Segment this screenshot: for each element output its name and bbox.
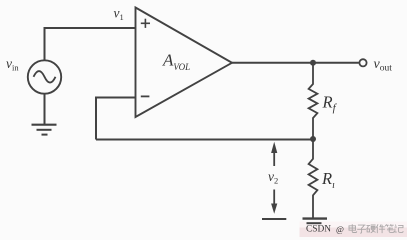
wire top: source to non-inverting input [45, 28, 136, 61]
v2 reference bar [262, 218, 286, 220]
op-amp + pin [141, 19, 150, 28]
watermark glyph 记 [395, 225, 404, 233]
op-amp - pin [141, 95, 150, 97]
watermark background [300, 227, 407, 237]
wire: output [232, 62, 359, 64]
wire: inverting input [96, 98, 136, 140]
resistor Ri [309, 139, 318, 218]
watermark glyph 笔 [385, 224, 394, 232]
node: output junction [310, 60, 316, 66]
node: feedback junction [310, 136, 316, 142]
watermark glyph 子 [357, 225, 366, 233]
wire: source bottom to ground [44, 93, 46, 124]
op-amp U1 triangle [136, 8, 233, 118]
terminal v_out [359, 59, 366, 66]
ground (left) [32, 125, 57, 135]
watermark glyph 件 [376, 224, 385, 233]
watermark glyph 电 [349, 224, 357, 232]
source v_in (AC) [28, 60, 61, 93]
watermark glyph 硬 [367, 225, 376, 233]
v2 measurement arrow [271, 142, 277, 214]
svg-text:@: @ [336, 224, 344, 234]
resistor Rf [309, 63, 318, 138]
wire: feedback bottom [96, 139, 313, 141]
svg-text:CSDN: CSDN [306, 225, 331, 235]
ground (under Ri) [303, 219, 328, 224]
